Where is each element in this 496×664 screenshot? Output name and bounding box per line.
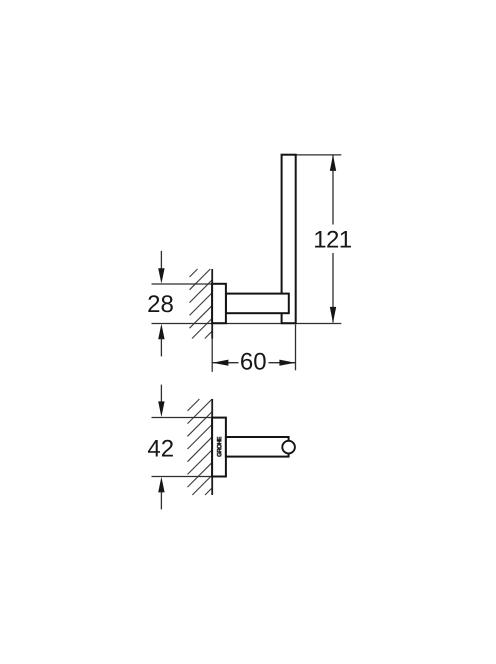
dimension 42: lower arrowhead	[158, 477, 164, 493]
dimension 28: upper arrow stem	[160, 251, 162, 270]
dimension 28: lower arrowhead	[158, 324, 164, 339]
svg-text:GROHE: GROHE	[217, 437, 224, 457]
dimension 28: lower arrow stem	[160, 338, 162, 356]
dimension text 60 (with white mask over line)	[239, 351, 269, 371]
arm tube (bottom view)	[226, 437, 289, 457]
dimension 42: lower arrow stem	[160, 491, 162, 509]
svg-text:60: 60	[240, 349, 267, 376]
dimension 60: right arrowhead	[279, 360, 295, 366]
wall hatching (top view)	[190, 269, 213, 339]
dimension 42: upper arrow stem	[160, 385, 162, 403]
wall line (top view)	[211, 269, 213, 339]
dimension 121: top arrowhead	[330, 155, 336, 171]
dimension 60: left arrowhead	[212, 360, 228, 366]
wall line (bottom view)	[211, 399, 213, 495]
bar cross-section circle (bottom view)	[282, 441, 295, 454]
dimension text 121 (with white mask over line)	[314, 225, 353, 254]
vertical holder bar (top view)	[282, 155, 296, 324]
wall hatching (bottom view)	[188, 399, 213, 495]
extension line bottom of plate / bottom of bar (28 + 121 dims)	[152, 323, 342, 325]
extension line top of bar (121 dim)	[296, 154, 342, 156]
dimension 121: bottom arrowhead	[330, 307, 336, 323]
dimension 28: upper arrowhead	[158, 268, 164, 283]
svg-text:42: 42	[147, 436, 174, 463]
horizontal arm (top view)	[226, 294, 289, 314]
dimension 60: horizontal dimension line	[213, 362, 296, 364]
dimension 121: vertical dimension line	[332, 156, 334, 323]
wall mounting plate (top view)	[212, 284, 226, 323]
extension line top of plate (42 dim)	[152, 417, 213, 419]
wall mounting plate (bottom view)	[212, 418, 226, 477]
extension line top of plate (28 dim)	[152, 283, 213, 285]
extension line bottom of plate (42 dim)	[152, 476, 213, 478]
svg-text:121: 121	[313, 226, 351, 253]
extension line below wall (60 dim left)	[211, 339, 213, 372]
svg-text:28: 28	[147, 291, 174, 318]
dimension 42: upper arrowhead	[158, 401, 164, 417]
extension line below bar right edge (60 dim right)	[295, 325, 297, 371]
